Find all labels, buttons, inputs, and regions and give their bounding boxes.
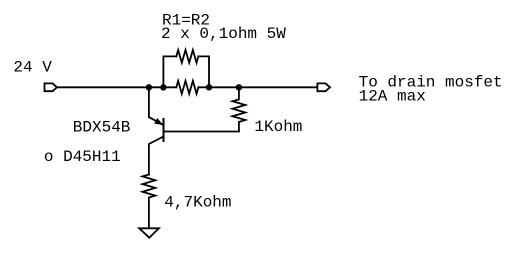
output terminal xyxy=(317,83,330,91)
svg-text:BDX54B: BDX54B xyxy=(73,118,131,136)
transistor Q1 arrow xyxy=(154,118,163,125)
svg-text:1Kohm: 1Kohm xyxy=(254,118,302,136)
node C xyxy=(206,84,212,90)
transistor Q1 emitter xyxy=(149,117,164,125)
wire base xyxy=(164,131,239,133)
input terminal 24V xyxy=(45,83,58,91)
wire left loop vertical xyxy=(163,56,176,87)
svg-text:12A max: 12A max xyxy=(359,88,426,106)
transistor Q1 base bar xyxy=(163,119,165,141)
svg-text:4,7Kohm: 4,7Kohm xyxy=(164,194,231,212)
node B xyxy=(160,84,166,90)
svg-text:o D45H11: o D45H11 xyxy=(44,148,121,166)
svg-text:24 V: 24 V xyxy=(13,58,52,76)
resistor R2 xyxy=(176,81,198,94)
wire right loop vertical xyxy=(198,56,209,87)
resistor 1Kohm xyxy=(233,87,246,131)
wire main rail right xyxy=(198,86,317,88)
wire emitter drop xyxy=(148,87,150,117)
wire main rail left xyxy=(57,86,176,88)
ground xyxy=(139,228,159,237)
resistor R1 xyxy=(176,50,198,63)
resistor 4.7Kohm xyxy=(143,175,156,229)
transistor Q1 collector xyxy=(149,137,164,175)
node A xyxy=(146,84,152,90)
node D xyxy=(236,84,242,90)
svg-text:2 x 0,1ohm 5W: 2 x 0,1ohm 5W xyxy=(161,25,286,43)
